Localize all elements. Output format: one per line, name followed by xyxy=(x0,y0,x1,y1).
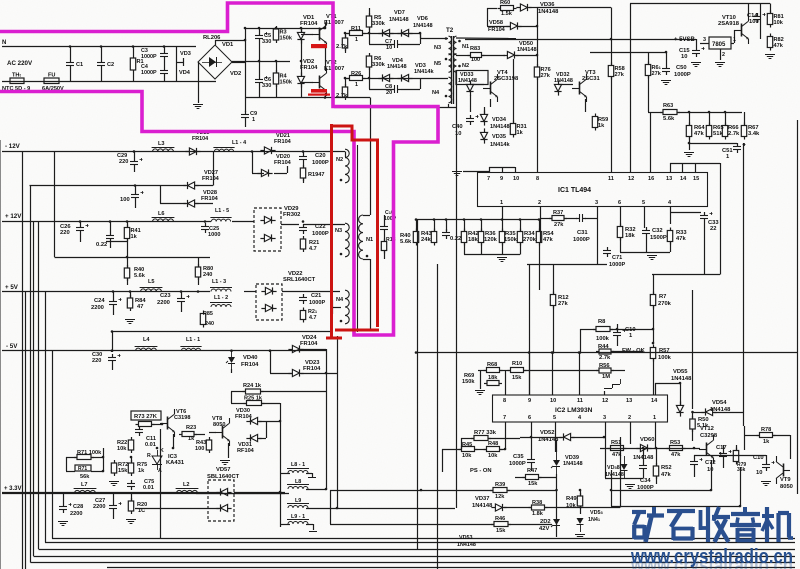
red mark 2 xyxy=(308,89,330,96)
wire vsb riser xyxy=(630,4,632,173)
pin 13 top IC1 xyxy=(666,176,672,182)
junction j725-112 xyxy=(724,111,727,114)
label R48 val xyxy=(488,453,498,459)
wire T2 N2 bottom lead xyxy=(456,70,458,107)
pin 2 bottom IC2 xyxy=(628,415,631,421)
wire bus v6 xyxy=(45,292,47,543)
svg-text:47k: 47k xyxy=(694,131,704,137)
label R23 val xyxy=(188,436,195,442)
wire 022-R41 link xyxy=(106,241,127,243)
svg-text:2: 2 xyxy=(538,200,541,206)
resistor R11 xyxy=(347,26,366,36)
resistor R85 xyxy=(200,311,205,328)
svg-text:10: 10 xyxy=(513,176,519,182)
label C27 name xyxy=(95,498,105,504)
svg-text:47k: 47k xyxy=(612,452,622,458)
boxed resistor R71b xyxy=(75,465,91,472)
wire C20 mid xyxy=(303,163,305,168)
wire vsb drop xyxy=(696,39,698,47)
svg-text:3: 3 xyxy=(595,200,598,206)
winding T2 N1 xyxy=(453,36,469,55)
wire C27 bot xyxy=(113,512,115,519)
label VD38 val xyxy=(605,472,624,478)
wire R33 down xyxy=(670,242,672,252)
diode VD60 xyxy=(636,444,651,451)
wire R41 bot xyxy=(127,239,129,257)
resistor R59 xyxy=(592,114,608,131)
pin 1 bottom IC2 xyxy=(653,415,656,421)
label R65 name xyxy=(713,125,724,131)
diode VD3 xyxy=(397,74,412,81)
label R46 val xyxy=(496,528,506,534)
label FR104 L3 xyxy=(192,136,208,142)
wire R13 down xyxy=(384,251,386,259)
label C33 val xyxy=(710,226,716,232)
label C10p name xyxy=(385,210,394,216)
svg-text:2200: 2200 xyxy=(70,511,82,517)
svg-text:R8: R8 xyxy=(598,319,606,325)
wire osc drop x520 xyxy=(520,220,522,232)
junction j164-46.5 xyxy=(163,45,166,48)
label R32 val xyxy=(625,233,635,239)
label C71 val xyxy=(609,262,625,268)
wire R77 right xyxy=(488,438,520,440)
pin 14 top IC2 xyxy=(651,398,658,404)
svg-text:15k: 15k xyxy=(118,468,128,474)
wire R7R57 join xyxy=(653,324,655,343)
svg-text:N2: N2 xyxy=(462,63,469,69)
svg-text:VD54: VD54 xyxy=(712,400,727,406)
label R42 val xyxy=(468,237,478,243)
junction j421-490 xyxy=(420,489,423,492)
capacitor C75 xyxy=(127,480,135,490)
svg-text:8: 8 xyxy=(536,176,539,182)
label R42 name xyxy=(468,231,479,237)
label C72 name xyxy=(705,460,716,466)
diode VD32 xyxy=(554,80,561,95)
svg-text:R71: R71 xyxy=(78,466,87,472)
pin 6 bottom IC2 xyxy=(528,415,531,421)
wire pin9 riser xyxy=(529,353,531,396)
svg-text:N1: N1 xyxy=(366,237,373,243)
wire bus v5 xyxy=(38,222,40,550)
svg-text:FR104: FR104 xyxy=(300,21,318,27)
label R65 val xyxy=(713,131,723,137)
label 2D2 val xyxy=(539,526,549,532)
label C10p val xyxy=(384,216,397,222)
svg-text:0.01: 0.01 xyxy=(143,485,154,491)
svg-text:42V: 42V xyxy=(539,526,549,532)
wire VD20 drop xyxy=(252,152,254,174)
wire R23 right xyxy=(194,434,205,436)
wire mid h 96 xyxy=(490,99,492,107)
junction j740-506 xyxy=(739,505,742,508)
svg-text:R38: R38 xyxy=(532,500,542,506)
wire vsb wire 52 xyxy=(590,52,666,54)
svg-text:1000P: 1000P xyxy=(141,70,157,76)
svg-text:18k: 18k xyxy=(468,237,478,243)
watermark char 收 xyxy=(701,507,731,542)
resistor R38 xyxy=(529,505,548,510)
label L1-5 xyxy=(215,208,229,214)
diode VD50 xyxy=(503,51,518,58)
wire R49 down xyxy=(580,506,582,514)
wire osc drop2 x481 xyxy=(481,243,483,255)
label R23 name xyxy=(186,425,196,431)
wire R80 bot xyxy=(198,277,200,285)
wire R71 col right xyxy=(103,448,105,471)
wire N4 top lead xyxy=(282,291,340,293)
svg-text:330k: 330k xyxy=(372,21,386,27)
wire N2 top lead xyxy=(339,151,345,153)
svg-text:1N4148: 1N4148 xyxy=(457,542,476,548)
wire R25 l xyxy=(231,403,247,405)
junction j112-331.5 xyxy=(111,330,114,333)
label R67 name xyxy=(748,125,759,131)
wire pin16 riser xyxy=(650,112,652,173)
svg-text:L1 - 2: L1 - 2 xyxy=(214,295,228,301)
wire R38 right xyxy=(545,507,621,509)
wire VD57a left xyxy=(2,492,219,494)
svg-text:1N4148: 1N4148 xyxy=(671,376,692,382)
ground C10r ground xyxy=(761,482,771,486)
svg-text:5: 5 xyxy=(553,415,556,421)
inductor L7 xyxy=(74,482,97,493)
label R26 value xyxy=(355,82,358,88)
junction j110-221.5 xyxy=(109,220,112,223)
svg-text:8050: 8050 xyxy=(213,422,225,428)
junction j70-46.5 xyxy=(69,45,72,48)
wire pin5 down xyxy=(644,207,646,229)
label C11 val xyxy=(145,442,156,448)
svg-text:VD1: VD1 xyxy=(222,42,234,48)
label R12 val xyxy=(558,301,568,307)
diode VD34 xyxy=(480,110,487,125)
svg-text:L5: L5 xyxy=(148,279,155,285)
winding T2 N3 xyxy=(434,36,452,55)
resistor R78 xyxy=(757,433,776,438)
label L4 xyxy=(143,337,150,343)
label C20 val xyxy=(312,160,329,166)
ground C28 ground xyxy=(58,522,68,526)
wire VD40 bot wire xyxy=(231,369,233,373)
svg-text:1N4148: 1N4148 xyxy=(458,78,477,84)
capacitor C31 xyxy=(576,214,586,222)
wire +12 to box xyxy=(232,221,254,223)
wire pin8 riser xyxy=(505,370,507,395)
wire osc drop2 x520 xyxy=(520,243,522,255)
label C11 name xyxy=(146,436,156,442)
svg-text:L3: L3 xyxy=(158,141,165,147)
svg-text:C35: C35 xyxy=(513,454,524,460)
wire C34 top xyxy=(643,448,645,462)
svg-text:27k: 27k xyxy=(558,301,568,307)
label C34 val xyxy=(637,485,654,491)
svg-text:R68: R68 xyxy=(487,362,497,368)
IC1 pin789 bracket xyxy=(463,167,516,173)
wire osc bus xyxy=(416,219,540,221)
wire VD1 top xyxy=(301,28,303,33)
label VD2 FR104 val xyxy=(300,65,318,71)
label 2D2 name xyxy=(540,519,551,525)
diode VD30 xyxy=(246,417,261,424)
wire C34 bot xyxy=(643,472,645,478)
wire C4 bot xyxy=(164,77,166,81)
capacitor C35 xyxy=(527,456,535,466)
label R51 name xyxy=(611,440,621,446)
capacitor C50 xyxy=(662,65,670,75)
inductor L8 xyxy=(287,485,309,490)
wire VD20 join xyxy=(287,166,289,173)
wire bus 274 xyxy=(652,274,720,276)
wire vert x760 top xyxy=(760,4,762,40)
junction j345-78 xyxy=(344,77,347,80)
svg-text:1M: 1M xyxy=(602,374,610,380)
wire R37 left xyxy=(540,218,552,220)
junction j127-257 xyxy=(126,256,129,259)
wire VT6 base drop xyxy=(160,429,162,539)
resistor R68 xyxy=(484,368,503,373)
wire L81 left xyxy=(280,473,290,475)
svg-text:56k: 56k xyxy=(80,474,90,480)
diode VD24 xyxy=(288,345,303,352)
inductor L1-1 xyxy=(180,347,201,351)
label R67 val xyxy=(748,131,760,137)
svg-text:2: 2 xyxy=(722,52,725,58)
wire pin14 riser2 xyxy=(653,383,655,395)
label VD6 name xyxy=(417,16,428,22)
label C24 val xyxy=(91,305,104,311)
label C51 val xyxy=(726,154,730,160)
svg-text:L8 - 1: L8 - 1 xyxy=(291,462,305,468)
resistor R45 xyxy=(459,447,478,452)
capacitor C32 xyxy=(642,227,650,237)
wire bottom rail 264 xyxy=(527,264,607,266)
label R79 val xyxy=(737,467,746,473)
wire x330 vert xyxy=(330,490,332,524)
wire bus h562 xyxy=(31,562,796,564)
wire vsb top right xyxy=(737,3,770,5)
junction j113-291.5 xyxy=(112,290,115,293)
label VD53 name xyxy=(459,535,473,541)
label VD1 bridge xyxy=(222,42,234,48)
junction j245-40 xyxy=(244,39,247,42)
label R7 name xyxy=(659,294,666,300)
resistor R21 xyxy=(300,236,305,252)
svg-text:330k: 330k xyxy=(372,62,386,68)
label VD55 val xyxy=(671,376,692,382)
ground C15 ground xyxy=(691,63,701,67)
svg-text:2200: 2200 xyxy=(91,305,104,311)
wire pin3 drop IC2 xyxy=(605,422,607,478)
svg-text:1: 1 xyxy=(653,415,656,421)
label R10 value xyxy=(336,93,348,99)
svg-text:N5: N5 xyxy=(434,61,441,67)
label R85 val xyxy=(205,321,214,327)
svg-text:1000P: 1000P xyxy=(609,262,625,268)
label C28 val xyxy=(70,511,82,517)
label VD39 name xyxy=(565,455,579,461)
svg-text:27k: 27k xyxy=(615,72,625,78)
junction j134-151.5 xyxy=(133,150,136,153)
svg-text:1000P: 1000P xyxy=(312,160,329,166)
wire osc drop x416 xyxy=(416,220,418,232)
label R66 name xyxy=(728,125,739,131)
capacitor Cosc xyxy=(442,229,450,239)
resistor R40 left xyxy=(124,265,129,281)
svg-text:120k: 120k xyxy=(484,237,498,243)
inductor L1-2b xyxy=(210,303,232,308)
wire VT10 coll xyxy=(748,4,750,17)
label R39 val xyxy=(495,494,505,500)
wire R73 right xyxy=(152,424,162,426)
resistor R22 xyxy=(128,437,133,453)
svg-text:1000P: 1000P xyxy=(674,72,691,78)
label C24 name xyxy=(94,298,105,304)
junction j434-219.5 xyxy=(433,218,436,221)
label VT10 val xyxy=(718,21,740,27)
label C27 val xyxy=(93,504,105,510)
wire R26 right xyxy=(362,78,369,80)
capacitor C100 xyxy=(131,191,144,201)
svg-text:330: 330 xyxy=(262,39,271,45)
label R84 name xyxy=(135,298,146,304)
boxed label VD33 xyxy=(456,71,488,85)
wire R24 loop l xyxy=(231,391,246,393)
label R2x name xyxy=(308,309,318,315)
wire L91 left xyxy=(280,524,290,526)
label VD31 name xyxy=(238,442,252,448)
capacitor C11 xyxy=(135,426,143,436)
wire VT4 node xyxy=(470,95,472,112)
wire pin2 drop IC2 xyxy=(630,422,632,444)
label C50 name xyxy=(676,65,687,71)
junction j556.5-490 xyxy=(555,489,558,492)
svg-text:6: 6 xyxy=(528,415,531,421)
label R21 val xyxy=(309,246,317,252)
wire VD58 right xyxy=(519,26,537,28)
label VD4 xyxy=(179,70,191,76)
diode VD22b xyxy=(261,304,276,311)
wire 100cap bot xyxy=(135,201,137,208)
resistor R32 xyxy=(617,224,622,241)
wire R7 down xyxy=(653,306,655,324)
zener VD40 xyxy=(226,351,235,369)
svg-text:C3198: C3198 xyxy=(174,415,190,421)
wire VT1-VT2 link xyxy=(325,45,327,71)
wire 022b top xyxy=(110,222,112,233)
svg-text:100k: 100k xyxy=(658,355,672,361)
svg-text:C34: C34 xyxy=(640,478,651,484)
transistor VT4 xyxy=(483,74,498,102)
resistor R9 xyxy=(342,35,347,51)
svg-text:47k: 47k xyxy=(774,43,784,49)
winding T2 N2 xyxy=(453,54,469,73)
wire x270 drop xyxy=(270,351,272,373)
wire R77 left xyxy=(461,438,474,440)
svg-text:2200: 2200 xyxy=(93,504,105,510)
resistor R81 xyxy=(767,11,783,28)
label R72 val xyxy=(118,468,128,474)
junction j481-219.5 xyxy=(480,218,483,221)
wire primary drop b xyxy=(370,259,372,330)
svg-text:R51: R51 xyxy=(611,440,621,446)
svg-text:R53: R53 xyxy=(670,440,680,446)
zener 2D2 xyxy=(551,511,560,533)
resistor R48 xyxy=(484,447,503,452)
wire v54 bus xyxy=(54,152,56,258)
label R39 name xyxy=(495,482,505,488)
svg-text:R47: R47 xyxy=(527,468,537,474)
wire C72 top xyxy=(694,455,696,458)
svg-text:R10: R10 xyxy=(512,361,522,367)
svg-text:VD2: VD2 xyxy=(230,71,241,77)
ground C51 ground xyxy=(684,153,694,157)
label VT3 name xyxy=(585,70,596,76)
capacitor C9 xyxy=(241,111,257,123)
wire C8 left xyxy=(369,89,391,91)
junction N2 bot dot xyxy=(340,179,343,182)
wire C8 vert r xyxy=(420,78,422,89)
resistor R7 xyxy=(650,292,655,309)
wire vert x692 xyxy=(692,290,694,409)
label C23 val xyxy=(157,300,170,306)
resistor R84 xyxy=(127,295,132,311)
wire R25 r xyxy=(262,403,281,405)
junction j464-219.5 xyxy=(463,218,466,221)
junction j643-448 xyxy=(642,447,645,450)
wire R44 right xyxy=(611,351,643,353)
wire R57 down xyxy=(653,359,655,383)
wire R5 top xyxy=(369,8,371,16)
wire R71 left vert xyxy=(66,457,68,471)
wire vert x556 mid xyxy=(556,440,558,452)
wire R68-R10 xyxy=(500,370,511,372)
label R13 name xyxy=(386,237,396,243)
svg-text:R7: R7 xyxy=(659,294,666,300)
resistor R47 xyxy=(523,475,542,480)
label +5VSB xyxy=(674,37,696,43)
wire R78 right xyxy=(773,435,791,437)
wire pin3 down xyxy=(597,207,599,265)
diode VD29b xyxy=(260,234,275,241)
label VD58 name xyxy=(489,20,503,26)
svg-text:L7: L7 xyxy=(81,482,88,488)
wire R10 top xyxy=(345,78,347,87)
svg-text:R71 100k: R71 100k xyxy=(77,450,102,456)
svg-text:0.22: 0.22 xyxy=(96,242,107,248)
label +12V xyxy=(5,213,22,220)
wire VT4 base xyxy=(470,84,484,86)
label C71 name xyxy=(612,255,622,261)
svg-text:FR104: FR104 xyxy=(488,27,506,33)
label VD54 name xyxy=(712,400,727,406)
junction j579-352.5 xyxy=(578,351,581,354)
label T2 xyxy=(446,27,454,34)
boxed label R73 xyxy=(131,411,161,420)
junction j303-221.5 xyxy=(302,220,305,223)
wire R31 up xyxy=(513,59,515,123)
label VD53 val xyxy=(457,542,476,548)
resistor R37 xyxy=(549,210,567,221)
pin 8 top IC2 xyxy=(503,398,506,404)
wire osc drop2 x502 xyxy=(502,243,504,255)
resistor R34 xyxy=(517,229,522,246)
label R78 val xyxy=(763,439,770,445)
label L1-4 xyxy=(232,140,246,146)
wire R79 up xyxy=(736,445,738,450)
label VD3 xyxy=(180,51,191,57)
